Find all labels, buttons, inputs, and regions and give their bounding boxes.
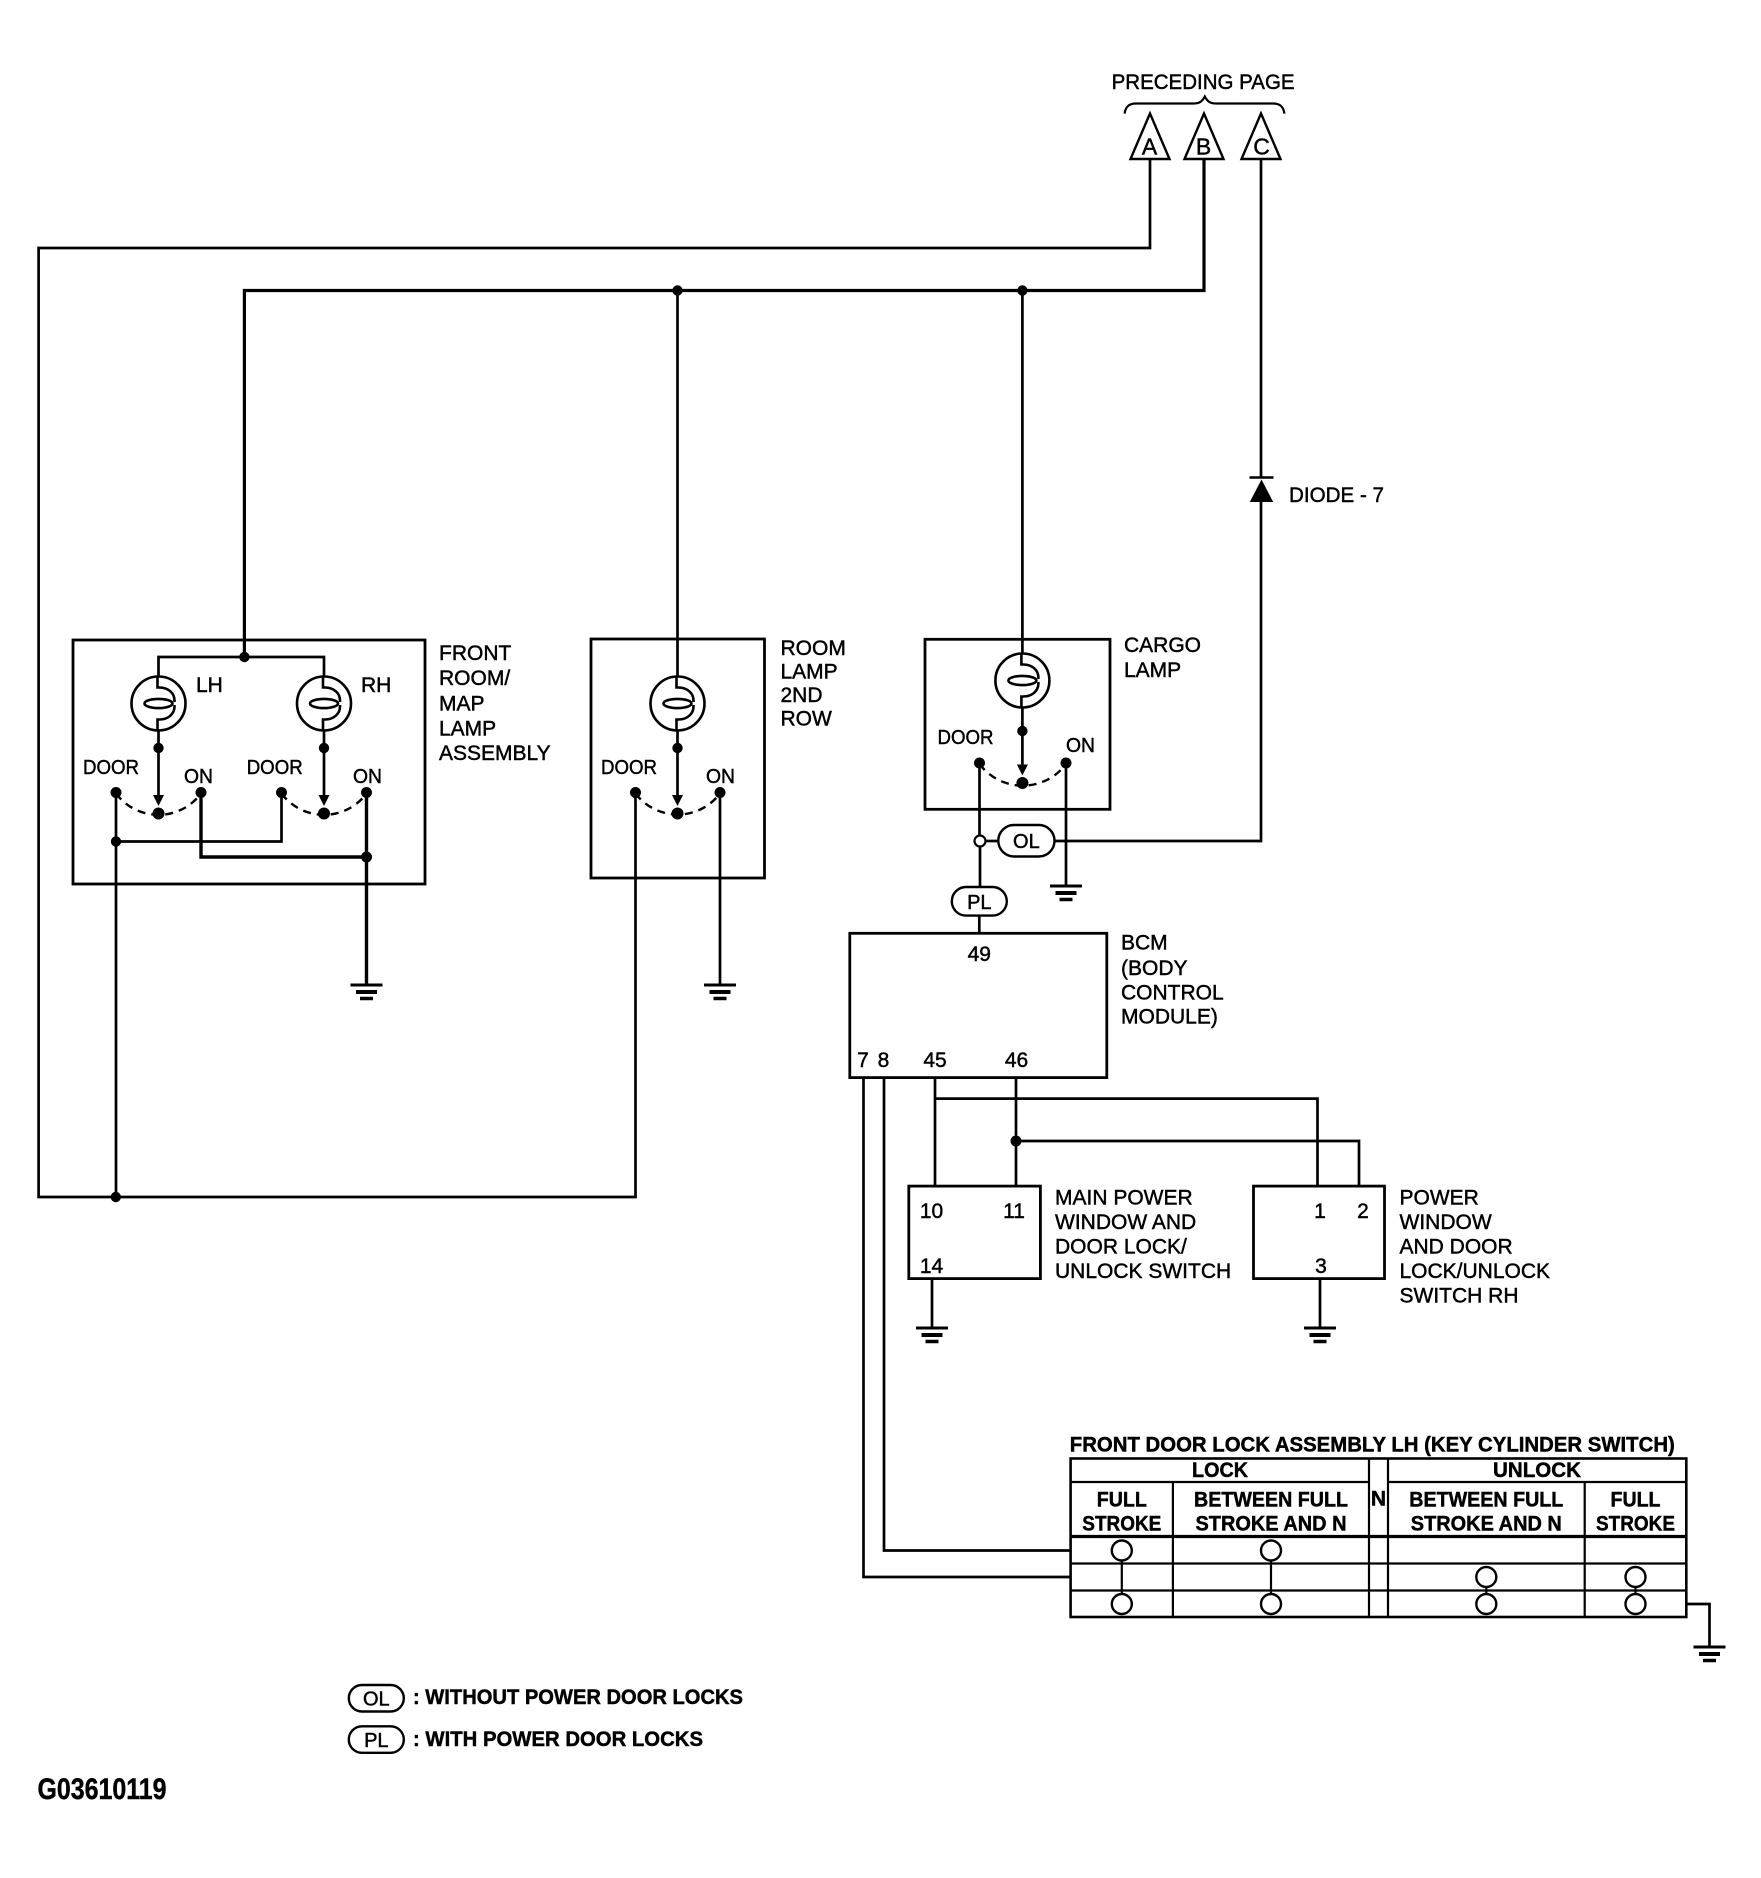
svg-text:ROOM: ROOM bbox=[781, 637, 846, 660]
wire busbar inside front room box bbox=[159, 657, 325, 677]
connector line col1 A-C bbox=[1121, 1561, 1123, 1595]
svg-text:PL: PL bbox=[364, 1730, 388, 1752]
svg-text:46: 46 bbox=[1005, 1049, 1028, 1072]
svg-text:49: 49 bbox=[968, 943, 991, 966]
wire branch pin46 net to power window RH pin 2 bbox=[1016, 1141, 1359, 1186]
wire net A: triangle A down, left, down left edge, bottom run, up to room lamp DOOR bbox=[39, 159, 1150, 1197]
contact circle row C col3 bbox=[1476, 1594, 1496, 1614]
svg-text:N: N bbox=[1371, 1488, 1386, 1511]
diode DIODE-7 anode triangle bbox=[1250, 480, 1273, 503]
wire branch B to room lamp bbox=[676, 291, 679, 678]
wire cargo lamp to switch junction bbox=[1021, 707, 1024, 728]
table key cylinder switch: outer frame bbox=[1071, 1459, 1687, 1618]
svg-text:B: B bbox=[1196, 134, 1211, 160]
wire net C below diode to OL branch bbox=[1055, 502, 1262, 841]
switch RH: dashed travel arc bbox=[282, 794, 367, 815]
wire table to ground bbox=[1686, 1604, 1709, 1647]
svg-text:DOOR: DOOR bbox=[601, 756, 657, 779]
legend oval OL bbox=[349, 1685, 404, 1712]
lamp LH bbox=[132, 677, 186, 731]
svg-text:FULL: FULL bbox=[1097, 1489, 1147, 1512]
wire BCM pin 8 to key cylinder row A bbox=[884, 1078, 1071, 1551]
connector triangle C bbox=[1242, 114, 1281, 160]
svg-text:BETWEEN FULL: BETWEEN FULL bbox=[1409, 1489, 1563, 1512]
label CARGO LAMP bbox=[1124, 634, 1201, 682]
svg-text:FULL: FULL bbox=[1611, 1489, 1661, 1512]
wire net C: triangle C down to diode bbox=[1260, 159, 1263, 478]
svg-text:ON: ON bbox=[353, 765, 382, 788]
switch cargo: dashed travel arc bbox=[980, 764, 1067, 786]
wire LH lamp to switch junction bbox=[157, 730, 160, 745]
svg-text:C: C bbox=[1253, 134, 1270, 160]
svg-text:45: 45 bbox=[923, 1049, 946, 1072]
svg-text:8: 8 bbox=[878, 1049, 890, 1072]
table horizontals bbox=[1071, 1482, 1687, 1591]
ground below room lamp box bbox=[704, 985, 736, 999]
contact circle row C col2 bbox=[1261, 1594, 1281, 1614]
ground below front room box bbox=[351, 985, 383, 999]
wire node to PL oval bbox=[979, 847, 982, 888]
svg-text:BCM: BCM bbox=[1121, 932, 1168, 955]
wire node to OL oval bbox=[986, 840, 999, 843]
svg-text:LOCK: LOCK bbox=[1192, 1459, 1248, 1482]
svg-text:FRONT: FRONT bbox=[439, 642, 511, 665]
switch arm arrow cargo bbox=[1021, 735, 1024, 765]
switch LH: dashed travel arc bbox=[116, 794, 201, 815]
switch cargo: ON contact bbox=[1061, 758, 1072, 769]
svg-text:(BODY: (BODY bbox=[1121, 957, 1188, 980]
svg-text:ROW: ROW bbox=[781, 708, 833, 731]
svg-text:OL: OL bbox=[1013, 831, 1040, 853]
box MAIN POWER WINDOW AND DOOR LOCK/UNLOCK SWITCH bbox=[909, 1186, 1041, 1279]
svg-text:MAP: MAP bbox=[439, 693, 485, 716]
label MAIN POWER WINDOW AND DOOR LOCK/UNLOCK SWITCH bbox=[1055, 1187, 1231, 1284]
wire cargo DOOR down to OL node bbox=[978, 763, 981, 836]
svg-text:STROKE: STROKE bbox=[1082, 1513, 1161, 1536]
svg-text:POWER: POWER bbox=[1400, 1187, 1479, 1210]
brace over connectors bbox=[1125, 97, 1285, 114]
box ROOM LAMP 2ND ROW bbox=[591, 639, 765, 878]
switch room: common contact bbox=[672, 808, 684, 820]
svg-text:WINDOW AND: WINDOW AND bbox=[1055, 1211, 1196, 1234]
junction dot below room lamp bbox=[672, 743, 682, 753]
ground below key cylinder table bbox=[1694, 1647, 1726, 1661]
switch room: dashed travel arc bbox=[636, 794, 721, 815]
contact circle row C col4 bbox=[1626, 1594, 1646, 1614]
lamp RH bbox=[297, 677, 351, 731]
junction dot below cargo lamp bbox=[1017, 726, 1027, 736]
svg-text:BETWEEN FULL: BETWEEN FULL bbox=[1194, 1489, 1348, 1512]
junction dot pin46 net bbox=[1011, 1136, 1022, 1147]
ground below power window RH switch bbox=[1304, 1328, 1336, 1342]
svg-text:1: 1 bbox=[1314, 1200, 1326, 1223]
svg-text:G03610119: G03610119 bbox=[38, 1773, 167, 1806]
switch cargo: common contact bbox=[1016, 777, 1028, 789]
wire ON net inside front room box bbox=[201, 793, 367, 986]
box FRONT ROOM/MAP LAMP ASSEMBLY bbox=[73, 640, 425, 884]
svg-text:: WITH POWER DOOR LOCKS: : WITH POWER DOOR LOCKS bbox=[413, 1728, 703, 1751]
connector line col2 A-C bbox=[1270, 1561, 1272, 1595]
svg-text:STROKE: STROKE bbox=[1596, 1513, 1675, 1536]
connector triangle B bbox=[1185, 114, 1224, 160]
switch room: ON contact bbox=[715, 787, 726, 798]
box CARGO LAMP bbox=[925, 639, 1110, 809]
wire BCM pin 46 to main power window switch pin 11 bbox=[1015, 1078, 1018, 1187]
junction dot on net A at front room DOOR branch bbox=[111, 1192, 121, 1202]
svg-text:10: 10 bbox=[920, 1200, 943, 1223]
svg-text:PRECEDING PAGE: PRECEDING PAGE bbox=[1112, 71, 1295, 94]
contact circle row B col3 bbox=[1476, 1567, 1496, 1587]
switch LH: DOOR contact bbox=[111, 787, 122, 798]
box BCM (BODY CONTROL MODULE) bbox=[850, 933, 1107, 1077]
svg-text:FRONT DOOR LOCK ASSEMBLY LH (K: FRONT DOOR LOCK ASSEMBLY LH (KEY CYLINDE… bbox=[1070, 1434, 1675, 1457]
switch RH: common contact bbox=[318, 808, 330, 820]
svg-text:STROKE AND N: STROKE AND N bbox=[1411, 1513, 1562, 1536]
option oval PL bbox=[952, 887, 1007, 916]
wire cargo ON to ground bbox=[1065, 763, 1068, 886]
svg-text:OL: OL bbox=[363, 1689, 390, 1711]
junction dot ON net bbox=[361, 852, 372, 863]
label POWER WINDOW AND DOOR LOCK/UNLOCK SWITCH RH bbox=[1400, 1187, 1551, 1308]
svg-text:LAMP: LAMP bbox=[439, 718, 496, 741]
label BCM (BODY CONTROL MODULE) bbox=[1121, 932, 1224, 1029]
switch arm arrow LH bbox=[157, 752, 160, 796]
junction dot below LH lamp bbox=[153, 743, 163, 753]
svg-text:2ND: 2ND bbox=[781, 684, 823, 707]
svg-text:LAMP: LAMP bbox=[781, 661, 838, 684]
svg-text:MODULE): MODULE) bbox=[1121, 1006, 1218, 1029]
svg-text:CARGO: CARGO bbox=[1124, 634, 1201, 657]
svg-text:RH: RH bbox=[361, 674, 391, 697]
wire DOOR net inside front room box bbox=[116, 793, 282, 1198]
connector triangle A bbox=[1131, 114, 1170, 160]
svg-text:PL: PL bbox=[967, 892, 991, 914]
svg-text:3: 3 bbox=[1315, 1255, 1327, 1278]
lamp CARGO bbox=[995, 654, 1049, 708]
svg-text:STROKE AND N: STROKE AND N bbox=[1196, 1513, 1347, 1536]
wire BCM pin 7 to key cylinder row B bbox=[864, 1078, 1071, 1577]
junction dot B/cargo lamp bbox=[1017, 285, 1027, 295]
switch RH: ON contact bbox=[361, 787, 372, 798]
wire PL to BCM pin 49 bbox=[978, 916, 981, 934]
svg-text:: WITHOUT POWER DOOR LOCKS: : WITHOUT POWER DOOR LOCKS bbox=[413, 1686, 743, 1709]
svg-text:LOCK/UNLOCK: LOCK/UNLOCK bbox=[1400, 1260, 1551, 1283]
switch arm arrow room lamp bbox=[676, 752, 679, 796]
switch room: DOOR contact bbox=[630, 787, 641, 798]
legend oval PL bbox=[349, 1726, 404, 1753]
node open circle (OL/PL tap) bbox=[975, 836, 986, 847]
ground below main power switch bbox=[916, 1328, 948, 1342]
label ROOM LAMP 2ND ROW bbox=[781, 637, 846, 731]
junction dot busbar/net B bbox=[239, 652, 249, 662]
switch LH: ON contact bbox=[196, 787, 207, 798]
switch RH: DOOR contact bbox=[276, 787, 287, 798]
wire room ON to ground bbox=[719, 793, 722, 986]
svg-text:SWITCH RH: SWITCH RH bbox=[1400, 1285, 1519, 1308]
junction dot DOOR net bbox=[111, 836, 121, 846]
svg-text:2: 2 bbox=[1357, 1200, 1369, 1223]
svg-text:A: A bbox=[1142, 134, 1158, 160]
wire branch pin45 net to power window RH pin 1 bbox=[935, 1099, 1318, 1187]
wire main power switch pin 14 to ground bbox=[931, 1279, 934, 1328]
switch arm arrow RH bbox=[323, 730, 326, 745]
diode DIODE-7 cathode bar bbox=[1250, 476, 1274, 479]
contact circle row A col1 bbox=[1112, 1541, 1132, 1561]
label FRONT ROOM/MAP LAMP ASSEMBLY bbox=[439, 642, 551, 765]
wire branch B to cargo lamp bbox=[1021, 291, 1024, 655]
svg-text:ON: ON bbox=[706, 765, 735, 788]
svg-text:ROOM/: ROOM/ bbox=[439, 667, 510, 690]
svg-text:DOOR: DOOR bbox=[938, 726, 994, 749]
contact circle row A col2 bbox=[1261, 1541, 1281, 1561]
switch LH: common contact bbox=[153, 808, 165, 820]
svg-text:14: 14 bbox=[920, 1255, 944, 1278]
contact circle row B col4 bbox=[1626, 1567, 1646, 1587]
table verticals bbox=[1173, 1459, 1585, 1618]
svg-text:CONTROL: CONTROL bbox=[1121, 982, 1224, 1005]
option oval OL bbox=[998, 825, 1054, 857]
connector line col3 B-C bbox=[1485, 1587, 1487, 1594]
wire power window RH pin 3 to ground bbox=[1319, 1279, 1322, 1328]
svg-text:UNLOCK: UNLOCK bbox=[1493, 1459, 1581, 1482]
svg-text:LAMP: LAMP bbox=[1124, 659, 1181, 682]
svg-text:DIODE - 7: DIODE - 7 bbox=[1289, 483, 1384, 507]
connector line col4 B-C bbox=[1634, 1587, 1636, 1594]
svg-text:ON: ON bbox=[184, 765, 213, 788]
wire BCM pin 45 to main power window switch pin 10 bbox=[934, 1078, 937, 1187]
svg-text:DOOR: DOOR bbox=[83, 756, 139, 779]
svg-text:ON: ON bbox=[1066, 734, 1095, 757]
svg-text:7: 7 bbox=[857, 1049, 869, 1072]
svg-text:AND DOOR: AND DOOR bbox=[1400, 1236, 1513, 1259]
switch cargo: DOOR contact bbox=[974, 758, 985, 769]
ground below cargo box bbox=[1050, 886, 1082, 900]
svg-text:DOOR: DOOR bbox=[247, 756, 303, 779]
svg-text:11: 11 bbox=[1003, 1200, 1025, 1223]
svg-text:UNLOCK SWITCH: UNLOCK SWITCH bbox=[1055, 1260, 1231, 1283]
lamp ROOM 2ND ROW bbox=[651, 677, 705, 731]
junction dot B/room lamp bbox=[672, 285, 682, 295]
svg-text:MAIN POWER: MAIN POWER bbox=[1055, 1187, 1193, 1210]
wire net B: triangle B down, left, down into front room lamp box bbox=[244, 159, 1204, 657]
svg-text:WINDOW: WINDOW bbox=[1400, 1211, 1492, 1234]
box POWER WINDOW AND DOOR LOCK/UNLOCK SWITCH RH bbox=[1254, 1186, 1385, 1279]
svg-text:LH: LH bbox=[196, 674, 223, 697]
svg-text:DOOR LOCK/: DOOR LOCK/ bbox=[1055, 1236, 1187, 1259]
svg-text:ASSEMBLY: ASSEMBLY bbox=[439, 742, 551, 765]
contact circle row C col1 bbox=[1112, 1594, 1132, 1614]
wire lamp to switch junction bbox=[676, 730, 679, 745]
